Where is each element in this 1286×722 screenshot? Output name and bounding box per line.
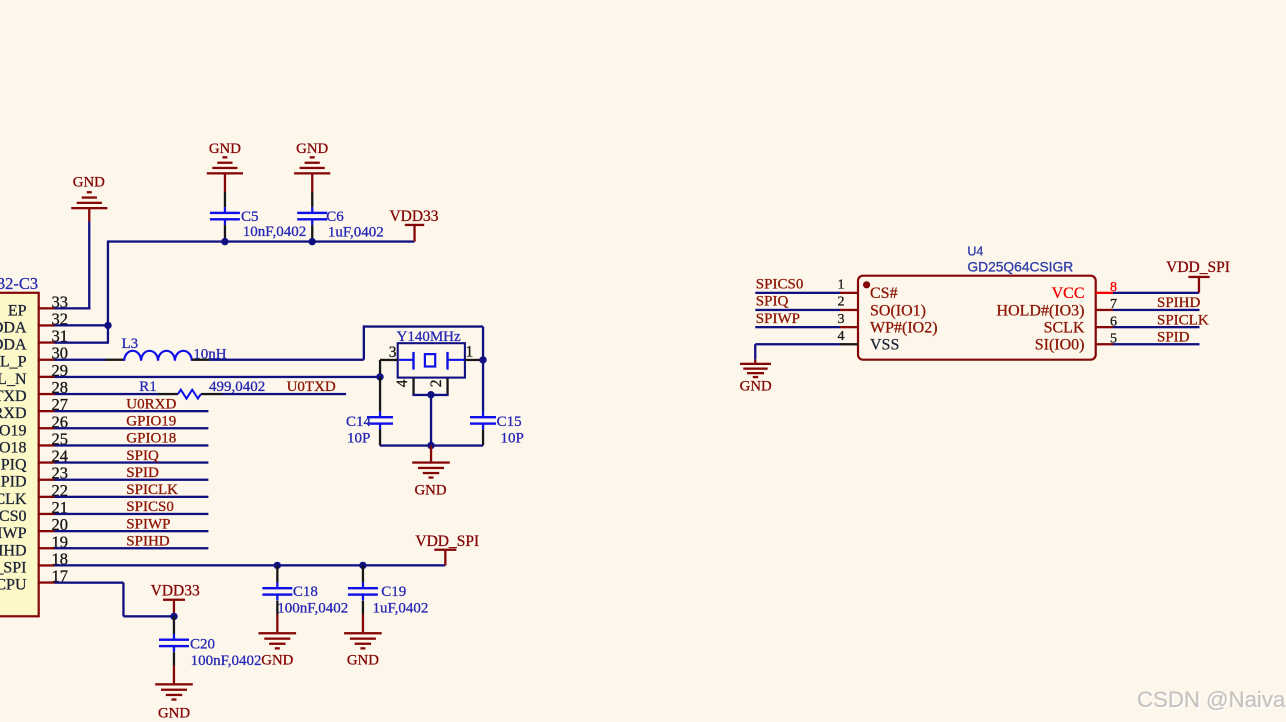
net label GPIO19 on pin 26 wire	[55, 414, 209, 430]
IC U1 part name ESP32-C3 (truncated by page edge)	[0, 274, 38, 293]
wire pin33 to GND	[55, 222, 91, 310]
svg-text:VDD33: VDD33	[389, 208, 438, 225]
IC U4 pin 4 VSS	[838, 329, 900, 354]
net label SPICS0	[755, 277, 840, 295]
svg-text:GND: GND	[73, 174, 105, 190]
IC U4 pin 1 dot marker	[863, 281, 870, 288]
svg-text:1: 1	[838, 278, 845, 293]
svg-text:C15: C15	[497, 414, 522, 430]
svg-text:SPIQ: SPIQ	[0, 457, 27, 474]
svg-text:C18: C18	[293, 584, 318, 600]
svg-text:SPID: SPID	[1157, 330, 1190, 346]
IC U4 body	[858, 276, 1096, 360]
svg-text:SPICLK: SPICLK	[1157, 312, 1209, 328]
svg-text:4: 4	[838, 329, 845, 344]
svg-text:GD25Q64CSIGR: GD25Q64CSIGR	[967, 259, 1073, 274]
IC U4 pin 6 SCLK	[1044, 314, 1117, 336]
svg-text:U4: U4	[967, 245, 983, 259]
IC U4 pin 1 CS#	[838, 278, 898, 303]
crystal pin 4	[394, 378, 415, 395]
wire L3 to crystal pin 1 (over the top)	[209, 325, 484, 411]
IC U4 pin 8 VCC	[1052, 280, 1117, 302]
wire pin 29 to crystal pin 3	[55, 376, 381, 378]
capacitor C15	[470, 411, 524, 446]
junction ground rail below crystal	[427, 442, 434, 449]
svg-text:GND: GND	[347, 652, 379, 668]
svg-text:GND: GND	[296, 141, 328, 157]
svg-text:GPIO19: GPIO19	[126, 414, 176, 430]
IC U4 value GD25Q64CSIGR	[967, 259, 1073, 274]
crystal Y1 symbol	[399, 352, 464, 370]
svg-text:VDD_SPI: VDD_SPI	[1166, 259, 1230, 276]
junction crystal pin 1 and C15	[479, 356, 486, 363]
net label SPIWP on pin 20 wire	[55, 516, 209, 532]
svg-text:10P: 10P	[347, 431, 370, 447]
net label SPICS0 on pin 21 wire	[55, 499, 209, 515]
svg-text:SPIHD: SPIHD	[126, 534, 170, 550]
svg-text:VDDA: VDDA	[0, 337, 27, 354]
svg-text:VDD_SPI: VDD_SPI	[0, 559, 27, 576]
svg-text:GPIO19: GPIO19	[0, 422, 27, 439]
svg-text:U0RXD: U0RXD	[0, 405, 27, 422]
svg-text:C14: C14	[346, 414, 372, 430]
junction crystal pins 2/4	[427, 391, 434, 398]
svg-text:100nF,0402: 100nF,0402	[191, 653, 262, 669]
IC U1 pin 30 (XTAL_P) stub, number and name	[0, 344, 68, 371]
svg-text:1uF,0402: 1uF,0402	[328, 225, 384, 241]
capacitor C18	[262, 565, 348, 616]
junction C18 on VDD_SPI rail	[274, 562, 281, 569]
svg-text:499,0402: 499,0402	[209, 379, 265, 395]
svg-text:SO(IO1): SO(IO1)	[870, 302, 926, 319]
net label SPICLK	[1113, 312, 1209, 328]
net label SPID	[1113, 330, 1200, 346]
svg-text:GND: GND	[261, 652, 293, 668]
svg-text:SI(IO0): SI(IO0)	[1035, 337, 1085, 354]
svg-text:GND: GND	[414, 483, 446, 499]
wire pin 31	[55, 342, 109, 344]
svg-text:WP#(IO2): WP#(IO2)	[870, 320, 938, 337]
ground symbol above C5	[207, 141, 243, 192]
ground symbol below C18	[259, 615, 297, 669]
capacitor C6	[297, 192, 384, 241]
net label SPIHD	[1113, 295, 1201, 311]
svg-text:SPICS0: SPICS0	[126, 499, 174, 515]
ground symbol below C19	[344, 615, 382, 669]
svg-text:VDD3P3_CPU: VDD3P3_CPU	[0, 577, 27, 594]
IC U1 pin 24 (SPIQ) stub, number and name	[0, 447, 68, 474]
svg-text:SPICLK: SPICLK	[0, 491, 27, 508]
svg-text:VDDA: VDDA	[0, 319, 27, 336]
svg-text:CS#: CS#	[870, 285, 898, 302]
svg-text:10nF,0402: 10nF,0402	[243, 224, 306, 240]
IC U1 pin 28 (U0TXD) stub, number and name	[0, 378, 68, 405]
net label SPIWP	[755, 311, 840, 329]
ground symbol near pin 33	[71, 174, 107, 221]
svg-text:SPICS0: SPICS0	[0, 508, 27, 525]
wire pin 17 to C20	[55, 582, 175, 618]
power port VDD33 (bottom)	[151, 583, 200, 617]
net label SPID on pin 23 wire	[55, 465, 209, 481]
wire pin 28 to R1	[55, 393, 160, 395]
crystal pin 2	[428, 378, 449, 395]
capacitor C5	[210, 192, 306, 241]
IC U1 pin 21 (SPICS0) stub, number and name	[0, 498, 68, 525]
svg-text:C5: C5	[241, 209, 259, 225]
junction C19 on VDD_SPI rail	[359, 562, 366, 569]
wire crystal pins 2-4 down	[412, 394, 448, 446]
wire pin 18 VDD_SPI rail	[55, 564, 446, 566]
ground symbol below C20	[155, 666, 193, 722]
net label SPICLK on pin 22 wire	[55, 482, 209, 498]
svg-text:SPICS0: SPICS0	[756, 277, 804, 293]
IC U4 pin 5 SI(IO0)	[1035, 331, 1117, 353]
watermark CSDN	[1137, 687, 1286, 713]
ground symbol above C6	[294, 141, 330, 192]
svg-text:U0TXD: U0TXD	[0, 388, 27, 405]
svg-text:C19: C19	[381, 584, 406, 600]
svg-text:C20: C20	[190, 637, 215, 653]
wire pin 30 to L3	[55, 359, 107, 361]
svg-text:GND: GND	[740, 378, 772, 394]
net label SPIQ	[755, 294, 840, 311]
svg-text:VSS: VSS	[870, 337, 899, 354]
IC U1 pin 33 (EP) stub, number and name	[8, 292, 68, 319]
svg-text:GND: GND	[158, 705, 190, 721]
svg-text:ESP32-C3: ESP32-C3	[0, 274, 38, 293]
svg-text:3: 3	[389, 344, 397, 361]
IC U1 pin 31 (VDDA) stub, number and name	[0, 327, 68, 354]
svg-text:100nF,0402: 100nF,0402	[277, 600, 348, 616]
svg-text:VCC: VCC	[1052, 285, 1085, 302]
svg-text:SPID: SPID	[0, 474, 27, 491]
svg-text:L3: L3	[122, 336, 139, 352]
svg-text:CSDN @Naiva: CSDN @Naiva	[1137, 687, 1286, 712]
net label SPIQ on pin 24 wire	[55, 448, 209, 464]
svg-text:U0RXD: U0RXD	[126, 396, 176, 412]
net label U0TXD	[222, 379, 346, 395]
svg-text:R1: R1	[139, 379, 157, 395]
svg-text:SPIQ: SPIQ	[126, 448, 159, 464]
crystal Y1 designator Y1 and value 40MHz	[397, 329, 462, 345]
svg-text:SPICLK: SPICLK	[126, 482, 178, 498]
capacitor C19	[348, 565, 429, 616]
net label U0RXD on pin 27 wire	[55, 396, 209, 412]
svg-text:C6: C6	[326, 209, 344, 225]
ground symbol below U4 pin 4	[740, 363, 772, 395]
IC U1 pin 27 (U0RXD) stub, number and name	[0, 395, 68, 422]
junction pins 31/32 on VDD33 rail	[104, 322, 111, 329]
svg-text:GND: GND	[209, 141, 241, 157]
power port VDD_SPI (left)	[415, 533, 479, 565]
svg-text:SPIQ: SPIQ	[756, 294, 789, 310]
resistor R1	[139, 379, 265, 398]
wire pin 32	[55, 324, 109, 326]
svg-text:SPIHD: SPIHD	[0, 542, 27, 559]
svg-text:SPID: SPID	[126, 465, 159, 481]
inductor L3	[105, 336, 227, 363]
IC U1 pin 29 (XTAL_N) stub, number and name	[0, 361, 68, 388]
wire U4 pin 4 to ground	[754, 343, 840, 363]
svg-text:10P: 10P	[501, 431, 524, 447]
svg-text:SCLK: SCLK	[1044, 320, 1085, 337]
svg-text:EP: EP	[8, 302, 27, 319]
svg-text:2: 2	[838, 295, 845, 310]
IC U1 pin 18 (VDD_SPI) stub, number and name	[0, 549, 68, 576]
power port VDD_SPI (right)	[1166, 259, 1230, 293]
svg-text:SPIHD: SPIHD	[1157, 295, 1201, 311]
IC U1 pin 22 (SPICLK) stub, number and name	[0, 481, 68, 508]
svg-text:XTAL_N: XTAL_N	[0, 371, 27, 388]
IC U1 pin 26 (GPIO19) stub, number and name	[0, 412, 68, 439]
junction C5 on rail	[221, 238, 228, 245]
svg-text:SPIWP: SPIWP	[756, 311, 800, 327]
net label SPIHD on pin 19 wire	[55, 534, 209, 550]
net label GPIO18 on pin 25 wire	[55, 431, 209, 447]
wire VDD33 rail	[107, 240, 415, 343]
svg-text:U0TXD: U0TXD	[287, 379, 336, 395]
wire U4 pin 8 to VDD_SPI	[1113, 292, 1199, 294]
junction C6 on rail	[309, 238, 316, 245]
wire C14/C15 ground rail	[380, 444, 483, 446]
svg-text:XTAL_P: XTAL_P	[0, 354, 27, 371]
IC U4 pin 7 HOLD#(IO3)	[997, 297, 1117, 319]
junction crystal pin 3 / C14 / pin 29	[376, 373, 383, 380]
svg-text:4: 4	[394, 379, 411, 387]
svg-text:2: 2	[428, 380, 445, 388]
capacitor C20	[159, 616, 262, 669]
power port VDD33 (top)	[389, 208, 438, 241]
ground symbol below crystal	[412, 446, 450, 499]
capacitor C14	[346, 377, 393, 447]
svg-text:3: 3	[838, 312, 845, 327]
crystal pin 3	[379, 344, 398, 377]
IC U1 ESP32-C3 body (cut at left edge)	[0, 293, 39, 617]
svg-text:GPIO18: GPIO18	[0, 439, 27, 456]
IC U1 pin 23 (SPID) stub, number and name	[0, 464, 68, 491]
svg-text:HOLD#(IO3): HOLD#(IO3)	[997, 302, 1085, 319]
IC U4 designator	[967, 245, 983, 259]
IC U4 pin 2 SO(IO1)	[838, 295, 927, 320]
crystal pin 1	[465, 344, 483, 361]
svg-text:SPIWP: SPIWP	[126, 516, 170, 532]
IC U1 pin 32 (VDDA) stub, number and name	[0, 309, 68, 336]
IC U4 pin 3 WP#(IO2)	[838, 312, 938, 337]
crystal Y1 box	[398, 343, 465, 377]
svg-text:1uF,0402: 1uF,0402	[373, 600, 429, 616]
IC U1 pin 25 (GPIO18) stub, number and name	[0, 429, 68, 456]
svg-text:SPIWP: SPIWP	[0, 525, 27, 542]
IC U1 pin 19 (SPIHD) stub, number and name	[0, 532, 68, 559]
svg-text:VDD33: VDD33	[151, 583, 200, 600]
IC U1 pin 17 (VDD3P3_CPU) stub, number and name	[0, 567, 68, 594]
junction VDD33 / C20 / pin 17	[170, 613, 177, 620]
svg-text:GPIO18: GPIO18	[126, 431, 176, 447]
svg-text:VDD_SPI: VDD_SPI	[415, 533, 479, 550]
IC U1 pin 20 (SPIWP) stub, number and name	[0, 515, 68, 542]
svg-text:1: 1	[466, 344, 474, 361]
